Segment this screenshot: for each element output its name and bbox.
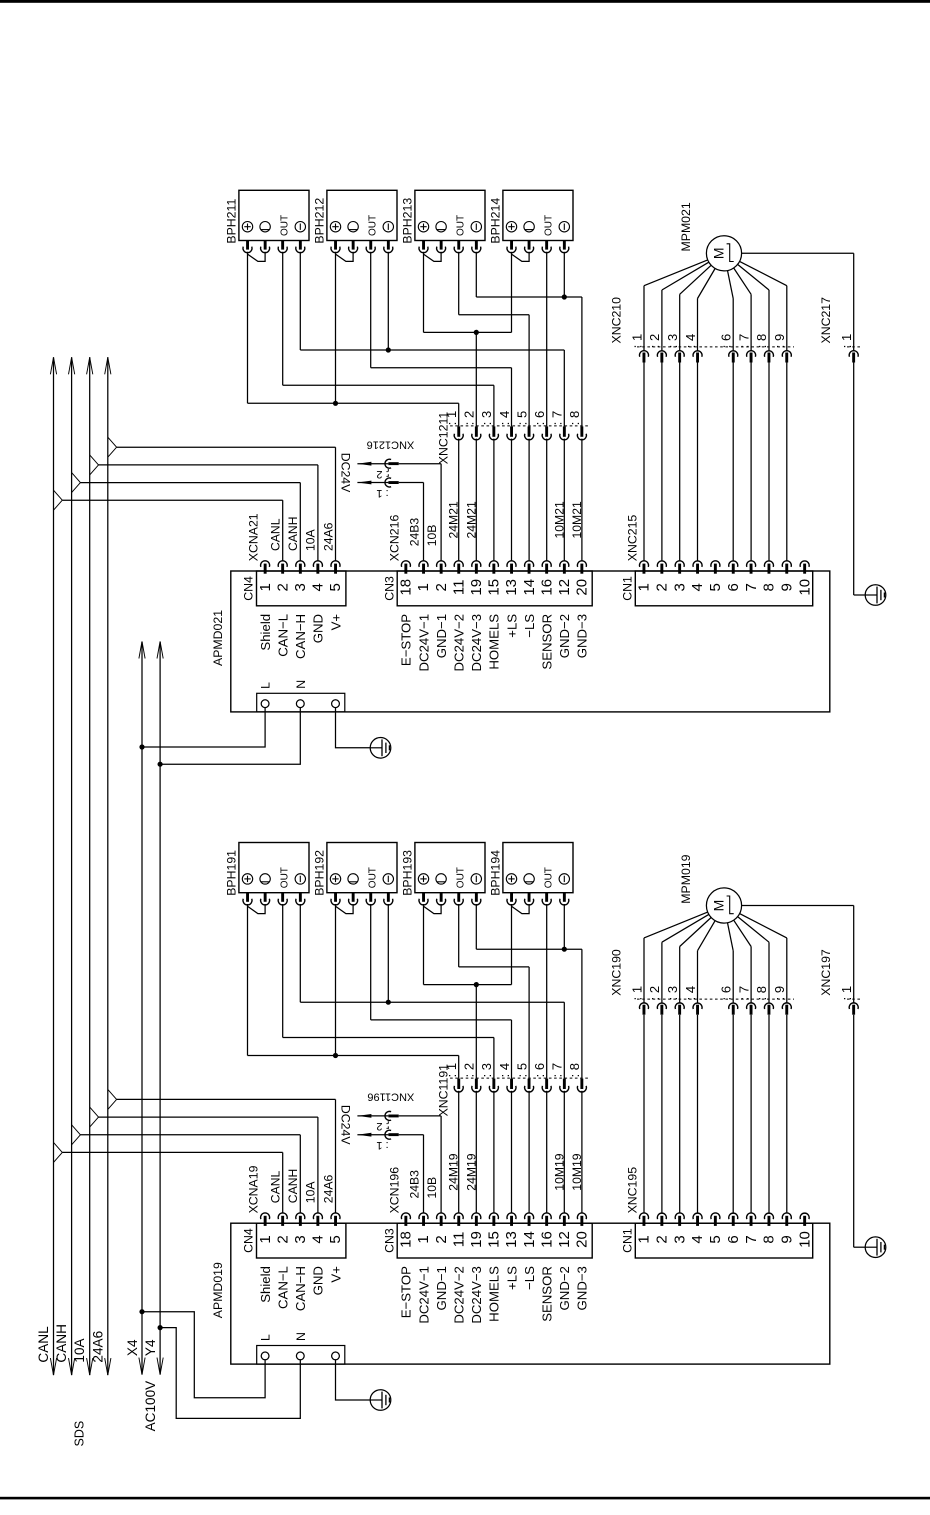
svg-text:CN4: CN4 [242, 1228, 256, 1253]
svg-text:10B: 10B [425, 525, 439, 547]
svg-text:16: 16 [538, 579, 555, 596]
svg-text:10A: 10A [304, 528, 318, 551]
svg-text:OUT: OUT [367, 215, 378, 236]
svg-text:: 5: : 5 [514, 411, 529, 425]
svg-text:BPH214: BPH214 [488, 198, 502, 244]
svg-text:V+: V+ [328, 1266, 343, 1283]
svg-text:4: 4 [310, 1235, 327, 1243]
svg-text:OUT: OUT [455, 867, 466, 888]
svg-text:CAN−L: CAN−L [276, 1266, 291, 1309]
svg-text:XNC1196: XNC1196 [367, 1091, 414, 1103]
svg-text:5: 5 [327, 583, 344, 591]
svg-text:: 6: : 6 [532, 1063, 547, 1077]
svg-text:GND−3: GND−3 [575, 1266, 590, 1310]
svg-text:: 4: : 4 [497, 1063, 512, 1077]
svg-text:N: N [294, 680, 308, 689]
svg-text:DC24V−2: DC24V−2 [452, 614, 467, 672]
svg-text:CN3: CN3 [382, 576, 396, 601]
svg-text:24B3: 24B3 [408, 1170, 422, 1199]
svg-text:24A6: 24A6 [321, 522, 335, 551]
svg-text:XNC1216: XNC1216 [367, 438, 415, 450]
svg-text:CN3: CN3 [382, 1228, 396, 1253]
svg-text:1: 1 [636, 583, 653, 591]
svg-text:M: M [710, 900, 726, 912]
svg-text:: 1: : 1 [629, 334, 644, 348]
svg-text:6: 6 [725, 1235, 742, 1243]
svg-text:CN1: CN1 [621, 576, 635, 601]
svg-text:24A6: 24A6 [90, 1331, 105, 1363]
svg-text:: 3: : 3 [665, 986, 680, 1000]
svg-text:CANL: CANL [269, 518, 283, 551]
svg-text:: 6: : 6 [719, 986, 734, 1000]
svg-text:−LS: −LS [522, 1266, 537, 1290]
svg-text:20: 20 [574, 579, 591, 596]
svg-text:4: 4 [310, 583, 327, 591]
svg-text:2: 2 [433, 1235, 450, 1243]
svg-text:1: 1 [415, 1235, 432, 1243]
svg-text:3: 3 [292, 1235, 309, 1243]
svg-text:MPM021: MPM021 [679, 202, 693, 251]
svg-text:2: 2 [433, 583, 450, 591]
svg-text:DC24V−3: DC24V−3 [469, 614, 484, 672]
svg-text:9: 9 [779, 583, 796, 591]
svg-text:3: 3 [292, 583, 309, 591]
svg-text:AC100V: AC100V [143, 1381, 158, 1432]
svg-text:20: 20 [574, 1231, 591, 1248]
svg-text:GND−3: GND−3 [575, 614, 590, 658]
svg-text:10M21: 10M21 [570, 501, 584, 538]
svg-text:: 1: : 1 [839, 334, 854, 348]
svg-text:: 7: : 7 [550, 411, 565, 425]
svg-text:BPH193: BPH193 [400, 850, 414, 896]
svg-text:OUT: OUT [543, 215, 554, 236]
svg-text:GND−1: GND−1 [434, 1266, 449, 1310]
svg-text:13: 13 [503, 1231, 520, 1248]
svg-text:V+: V+ [328, 614, 343, 631]
svg-text:: 2: : 2 [462, 411, 477, 425]
svg-text:1: 1 [257, 583, 274, 591]
svg-text:8: 8 [761, 583, 778, 591]
svg-text:24M19: 24M19 [447, 1153, 461, 1190]
svg-text:4: 4 [689, 583, 706, 591]
svg-text:BPH191: BPH191 [224, 850, 238, 896]
svg-text:XCN216: XCN216 [388, 515, 402, 562]
svg-text:1: 1 [415, 583, 432, 591]
svg-text:N: N [294, 1332, 308, 1341]
svg-text:5: 5 [327, 1235, 344, 1243]
svg-text:: 1: : 1 [376, 1139, 388, 1151]
svg-text:HOMELS: HOMELS [487, 1266, 502, 1322]
svg-text:8: 8 [761, 1235, 778, 1243]
svg-text:: 7: : 7 [550, 1063, 565, 1077]
svg-text:10A: 10A [304, 1181, 318, 1204]
svg-text:CAN−L: CAN−L [276, 614, 291, 657]
svg-text:BPH213: BPH213 [400, 198, 414, 244]
svg-text:3: 3 [671, 1235, 688, 1243]
svg-text:CANH: CANH [54, 1324, 69, 1363]
svg-text:4: 4 [689, 1235, 706, 1243]
svg-text:: 1: : 1 [839, 986, 854, 1000]
svg-text:11: 11 [450, 580, 467, 596]
svg-text:CN1: CN1 [621, 1228, 635, 1253]
svg-text:12: 12 [556, 579, 573, 596]
svg-text:XCNA19: XCNA19 [247, 1165, 261, 1213]
svg-text:: 3: : 3 [479, 411, 494, 425]
svg-text:E−STOP: E−STOP [399, 614, 414, 666]
svg-text:Y4: Y4 [143, 1339, 158, 1356]
svg-text:GND−1: GND−1 [434, 614, 449, 658]
svg-text:L: L [259, 1334, 273, 1341]
svg-text:SENSOR: SENSOR [540, 614, 555, 670]
svg-text:: 2: : 2 [647, 334, 662, 348]
svg-text:GND−2: GND−2 [557, 1266, 572, 1310]
svg-text:X4: X4 [125, 1339, 140, 1356]
svg-text:: 4: : 4 [497, 411, 512, 425]
svg-text:10B: 10B [425, 1177, 439, 1199]
svg-text:: 4: : 4 [683, 334, 698, 348]
svg-text:OUT: OUT [279, 215, 290, 236]
svg-text:CANH: CANH [286, 1169, 300, 1204]
svg-text:XNC217: XNC217 [819, 297, 833, 344]
svg-text:: 3: : 3 [665, 334, 680, 348]
svg-text:DC24V−1: DC24V−1 [416, 1266, 431, 1324]
svg-text:+LS: +LS [504, 1266, 519, 1290]
svg-text:10M19: 10M19 [570, 1153, 584, 1190]
svg-text:24A6: 24A6 [321, 1175, 335, 1204]
svg-text:24M21: 24M21 [464, 501, 478, 538]
svg-text:10M19: 10M19 [552, 1153, 566, 1190]
svg-text:: 2: : 2 [376, 468, 388, 480]
svg-text:18: 18 [398, 1231, 415, 1248]
svg-text:BPH192: BPH192 [312, 850, 326, 896]
svg-text:XNC195: XNC195 [626, 1167, 640, 1214]
svg-text:6: 6 [725, 583, 742, 591]
svg-text:: 2: : 2 [462, 1063, 477, 1077]
svg-text:10M21: 10M21 [552, 501, 566, 538]
svg-text:2: 2 [654, 583, 671, 591]
svg-text:18: 18 [398, 579, 415, 596]
svg-text:CAN−H: CAN−H [293, 1266, 308, 1311]
svg-text:19: 19 [468, 1231, 485, 1248]
svg-text:GND−2: GND−2 [557, 614, 572, 658]
svg-text:: 8: : 8 [567, 1063, 582, 1077]
svg-text:: 2: : 2 [376, 1120, 388, 1132]
svg-text:OUT: OUT [367, 867, 378, 888]
svg-text:XNC190: XNC190 [610, 949, 624, 996]
svg-text:DC24V: DC24V [338, 453, 352, 493]
svg-text:GND: GND [311, 614, 326, 643]
svg-text:2: 2 [274, 1235, 291, 1243]
svg-text:9: 9 [779, 1235, 796, 1243]
svg-text:XNC215: XNC215 [626, 515, 640, 562]
svg-text:24M21: 24M21 [447, 501, 461, 538]
svg-text:CANL: CANL [36, 1326, 51, 1363]
svg-text:Shield: Shield [258, 1266, 273, 1303]
svg-text:: 7: : 7 [736, 986, 751, 1000]
svg-text:CANH: CANH [286, 516, 300, 551]
svg-text:: 4: : 4 [683, 986, 698, 1000]
svg-text:SDS: SDS [73, 1421, 87, 1447]
svg-text:CN4: CN4 [242, 576, 256, 601]
svg-text:DC24V−1: DC24V−1 [416, 614, 431, 672]
svg-text:24M19: 24M19 [464, 1153, 478, 1190]
svg-text:13: 13 [503, 579, 520, 596]
svg-text:CAN−H: CAN−H [293, 614, 308, 659]
svg-text:: 7: : 7 [736, 334, 751, 348]
svg-text:: 2: : 2 [647, 986, 662, 1000]
svg-text:10: 10 [796, 1231, 813, 1248]
svg-text:XNC1191: XNC1191 [436, 1064, 450, 1117]
svg-text:GND: GND [311, 1266, 326, 1295]
svg-text:: 8: : 8 [567, 411, 582, 425]
svg-text:1: 1 [636, 1235, 653, 1243]
svg-text:3: 3 [671, 583, 688, 591]
svg-text:XNC1211: XNC1211 [436, 412, 450, 465]
svg-text:XNC210: XNC210 [610, 297, 624, 344]
svg-text:: 3: : 3 [479, 1063, 494, 1077]
svg-text:L: L [259, 682, 273, 689]
svg-text:11: 11 [450, 1232, 467, 1248]
svg-text:BPH212: BPH212 [312, 198, 326, 244]
svg-text:OUT: OUT [543, 867, 554, 888]
svg-text:: 8: : 8 [754, 986, 769, 1000]
svg-text:M: M [710, 247, 726, 259]
svg-text:7: 7 [743, 1235, 760, 1243]
svg-text:OUT: OUT [455, 215, 466, 236]
svg-text:DC24V: DC24V [338, 1105, 352, 1145]
svg-text:14: 14 [521, 579, 538, 596]
svg-text:1: 1 [257, 1235, 274, 1243]
svg-text:CANL: CANL [269, 1170, 283, 1203]
svg-text:XNC197: XNC197 [819, 949, 833, 996]
svg-text:Shield: Shield [258, 614, 273, 651]
svg-text:BPH194: BPH194 [488, 850, 502, 896]
svg-text:16: 16 [538, 1231, 555, 1248]
svg-text:APMD019: APMD019 [211, 1262, 225, 1318]
svg-text:19: 19 [468, 579, 485, 596]
svg-text:2: 2 [274, 583, 291, 591]
svg-text:DC24V−2: DC24V−2 [452, 1266, 467, 1324]
svg-text:: 5: : 5 [514, 1063, 529, 1077]
svg-text:BPH211: BPH211 [224, 199, 238, 244]
svg-text:: 1: : 1 [376, 487, 388, 499]
svg-text:XCN196: XCN196 [388, 1167, 402, 1214]
svg-text:12: 12 [556, 1231, 573, 1248]
svg-text:HOMELS: HOMELS [487, 614, 502, 670]
svg-text:: 8: : 8 [754, 334, 769, 348]
svg-text:7: 7 [743, 583, 760, 591]
svg-text:OUT: OUT [279, 867, 290, 888]
svg-text:5: 5 [707, 1235, 724, 1243]
svg-text:SENSOR: SENSOR [540, 1266, 555, 1322]
svg-text:−LS: −LS [522, 614, 537, 638]
svg-text:14: 14 [521, 1231, 538, 1248]
svg-text:APMD021: APMD021 [211, 610, 225, 666]
svg-text:: 9: : 9 [772, 334, 787, 348]
svg-text:DC24V−3: DC24V−3 [469, 1266, 484, 1324]
svg-text:+LS: +LS [504, 614, 519, 638]
svg-text:: 1: : 1 [629, 986, 644, 1000]
svg-text:: 6: : 6 [532, 411, 547, 425]
svg-text:24B3: 24B3 [408, 518, 422, 547]
svg-text:: 9: : 9 [772, 986, 787, 1000]
svg-text:15: 15 [486, 1231, 503, 1248]
svg-text:MPM019: MPM019 [679, 854, 693, 903]
svg-text:5: 5 [707, 583, 724, 591]
svg-text:E−STOP: E−STOP [399, 1266, 414, 1318]
svg-text:10: 10 [796, 579, 813, 596]
svg-text:XCNA21: XCNA21 [247, 513, 261, 561]
svg-text:: 6: : 6 [719, 334, 734, 348]
svg-text:15: 15 [486, 579, 503, 596]
svg-text:10A: 10A [72, 1337, 87, 1362]
svg-text:2: 2 [654, 1235, 671, 1243]
